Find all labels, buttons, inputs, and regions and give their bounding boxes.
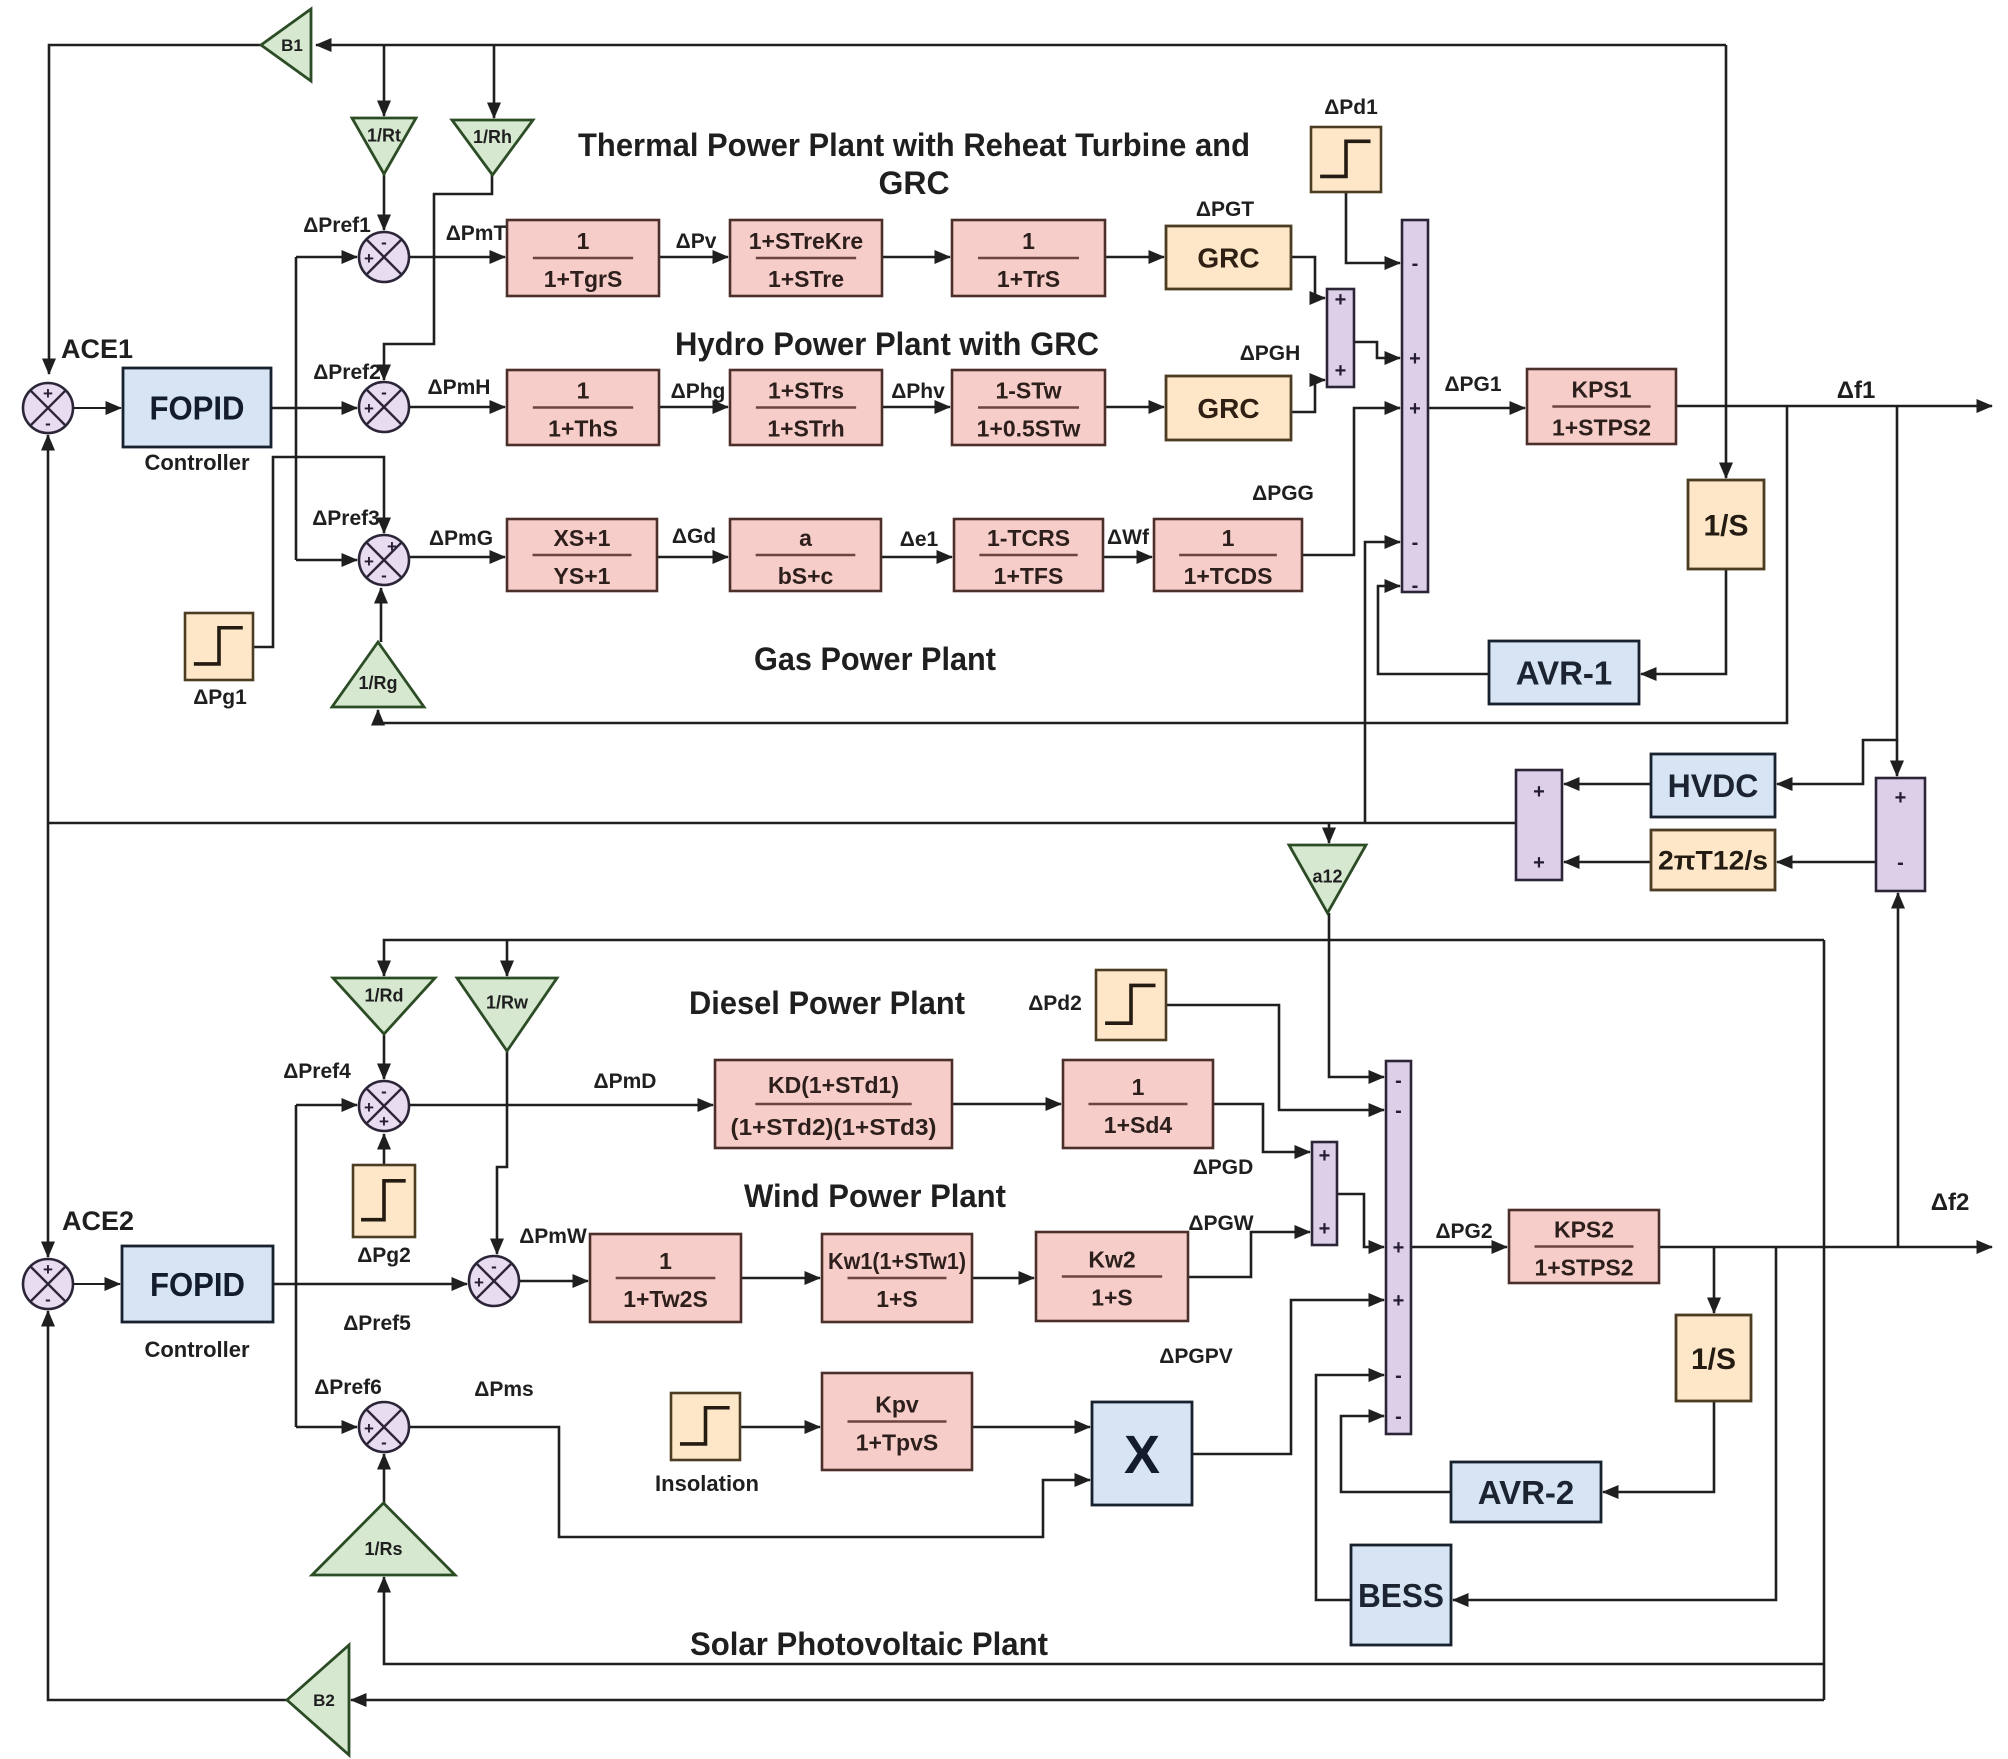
svg-text:+: + [474,1273,484,1292]
svg-text:ΔPref6: ΔPref6 [314,1376,382,1399]
svg-text:ΔPref5: ΔPref5 [343,1312,411,1335]
svg-text:Insolation: Insolation [655,1471,759,1496]
svg-text:Kw1(1+STw1): Kw1(1+STw1) [828,1248,966,1274]
svg-text:-: - [491,1257,497,1276]
svg-text:+: + [1409,348,1421,370]
svg-text:1+TpvS: 1+TpvS [856,1430,938,1456]
svg-text:ΔPhg: ΔPhg [671,380,726,403]
svg-text:-: - [381,566,387,585]
svg-text:ΔPref3: ΔPref3 [312,507,380,530]
svg-text:1+Sd4: 1+Sd4 [1104,1112,1173,1138]
svg-text:ΔPGH: ΔPGH [1240,342,1301,365]
svg-text:1-STw: 1-STw [995,378,1061,404]
svg-text:1+TrS: 1+TrS [997,266,1060,292]
svg-text:bS+c: bS+c [778,563,834,589]
svg-text:+: + [1533,781,1545,803]
svg-text:Hydro Power Plant with GRC: Hydro Power Plant with GRC [675,326,1099,362]
svg-text:-: - [1897,852,1904,874]
svg-text:Diesel Power Plant: Diesel Power Plant [689,985,965,1021]
svg-text:ΔPGG: ΔPGG [1252,482,1314,505]
svg-text:(1+STd2)(1+STd3): (1+STd2)(1+STd3) [731,1114,937,1140]
svg-text:ΔWf: ΔWf [1107,526,1150,549]
svg-text:-: - [1395,1406,1402,1428]
svg-text:ΔPd1: ΔPd1 [1324,96,1378,119]
svg-text:-: - [1395,1070,1402,1092]
svg-text:YS+1: YS+1 [554,563,611,589]
svg-text:Thermal Power Plant with Rehea: Thermal Power Plant with Reheat Turbine … [578,127,1250,163]
svg-text:1+ThS: 1+ThS [548,416,618,442]
svg-text:ΔPhv: ΔPhv [891,380,945,403]
svg-text:1: 1 [659,1248,672,1274]
svg-text:ΔPGW: ΔPGW [1188,1212,1253,1235]
svg-text:2πT12/s: 2πT12/s [1658,846,1768,876]
svg-text:ΔPref4: ΔPref4 [283,1060,351,1083]
svg-text:1+STPS2: 1+STPS2 [1534,1255,1633,1281]
svg-text:1: 1 [1222,525,1235,551]
svg-text:Controller: Controller [144,450,250,475]
svg-text:ΔPref1: ΔPref1 [303,214,371,237]
svg-text:XS+1: XS+1 [554,525,611,551]
svg-text:+: + [364,1419,374,1438]
svg-text:+: + [1319,1218,1331,1240]
svg-text:+: + [364,249,374,268]
svg-text:+: + [364,399,374,418]
svg-text:GRC: GRC [1197,243,1259,274]
svg-text:1: 1 [1022,228,1035,254]
svg-text:FOPID: FOPID [150,1266,245,1303]
svg-text:BESS: BESS [1358,1577,1444,1614]
svg-text:-: - [1412,253,1419,275]
svg-text:GRC: GRC [878,165,949,201]
svg-text:Wind Power Plant: Wind Power Plant [744,1178,1006,1214]
svg-text:KD(1+STd1): KD(1+STd1) [768,1072,899,1098]
svg-text:+: + [1335,289,1347,311]
svg-text:-: - [1412,575,1419,597]
svg-text:1+TgrS: 1+TgrS [544,266,623,292]
svg-text:ΔPref2: ΔPref2 [313,361,381,384]
svg-text:1+STrs: 1+STrs [768,378,844,404]
svg-text:-: - [381,1433,387,1452]
svg-text:-: - [381,233,387,252]
svg-text:Δf1: Δf1 [1837,377,1876,404]
svg-text:1+S: 1+S [876,1286,918,1312]
svg-text:AVR-1: AVR-1 [1516,654,1613,691]
svg-text:-: - [1395,1100,1402,1122]
svg-text:1/Rg: 1/Rg [358,673,397,693]
svg-text:ΔPmT: ΔPmT [446,222,507,245]
svg-text:ΔPG2: ΔPG2 [1435,1220,1492,1243]
svg-text:ΔPGPV: ΔPGPV [1159,1345,1232,1368]
svg-text:KPS2: KPS2 [1554,1217,1614,1243]
svg-text:+: + [364,552,374,571]
svg-text:ΔPms: ΔPms [474,1378,533,1401]
svg-text:1: 1 [577,378,590,404]
svg-text:1/S: 1/S [1703,509,1748,542]
svg-text:Controller: Controller [144,1337,250,1362]
svg-text:+: + [43,1260,53,1279]
svg-text:-: - [45,414,51,433]
svg-text:a: a [799,525,812,551]
svg-text:+: + [364,1098,374,1117]
svg-text:KPS1: KPS1 [1571,377,1631,403]
svg-text:Kpv: Kpv [875,1392,919,1418]
svg-text:ΔPmW: ΔPmW [519,1225,587,1248]
svg-text:ΔPmD: ΔPmD [594,1070,657,1093]
svg-text:1: 1 [1132,1074,1145,1100]
svg-text:ΔPG1: ΔPG1 [1444,373,1501,396]
svg-text:B1: B1 [281,36,303,55]
svg-text:1+Tw2S: 1+Tw2S [623,1286,708,1312]
svg-text:1+STre: 1+STre [768,266,844,292]
svg-text:Kw2: Kw2 [1088,1247,1135,1273]
svg-text:1-TCRS: 1-TCRS [987,525,1070,551]
svg-text:+: + [1335,360,1347,382]
svg-text:-: - [381,1082,387,1101]
svg-text:Solar Photovoltaic Plant: Solar Photovoltaic Plant [690,1626,1048,1662]
svg-text:+: + [1533,852,1545,874]
svg-text:Δe1: Δe1 [900,528,939,551]
svg-text:ACE1: ACE1 [61,334,133,364]
svg-text:X: X [1124,1425,1160,1485]
svg-text:+: + [43,384,53,403]
svg-text:1/Rt: 1/Rt [367,126,401,146]
svg-text:GRC: GRC [1197,393,1259,424]
svg-text:1/S: 1/S [1691,1343,1736,1376]
svg-text:-: - [1395,1365,1402,1387]
svg-text:1+0.5STw: 1+0.5STw [977,416,1081,442]
svg-text:1/Rd: 1/Rd [364,986,403,1006]
svg-text:1/Rs: 1/Rs [364,1539,402,1559]
svg-text:ΔPGD: ΔPGD [1193,1156,1254,1179]
svg-text:1: 1 [577,228,590,254]
svg-text:-: - [45,1290,51,1309]
svg-text:ΔPg2: ΔPg2 [357,1244,411,1267]
svg-text:ΔPv: ΔPv [676,230,717,253]
svg-text:-: - [381,383,387,402]
svg-text:1/Rw: 1/Rw [486,993,529,1013]
svg-text:1+STrh: 1+STrh [767,416,844,442]
svg-text:HVDC: HVDC [1668,768,1759,804]
svg-text:Gas Power Plant: Gas Power Plant [754,641,996,677]
svg-text:1/Rh: 1/Rh [473,127,512,147]
svg-text:1+STPS2: 1+STPS2 [1552,415,1651,441]
svg-text:-: - [1412,532,1419,554]
svg-text:FOPID: FOPID [150,389,245,426]
svg-text:AVR-2: AVR-2 [1478,1474,1575,1511]
svg-text:+: + [1393,1237,1405,1259]
svg-text:+: + [1895,787,1907,809]
svg-text:ΔGd: ΔGd [672,525,716,548]
svg-text:+: + [387,537,397,556]
svg-text:+: + [379,1112,389,1131]
svg-text:+: + [1409,398,1421,420]
svg-text:1+S: 1+S [1091,1285,1133,1311]
svg-text:ΔPg1: ΔPg1 [193,686,247,709]
svg-text:ACE2: ACE2 [62,1206,134,1236]
svg-text:ΔPGT: ΔPGT [1196,198,1254,221]
svg-text:Δf2: Δf2 [1931,1189,1970,1216]
svg-text:+: + [1393,1290,1405,1312]
svg-text:ΔPmG: ΔPmG [429,527,493,550]
svg-text:1+STreKre: 1+STreKre [749,228,863,254]
svg-text:+: + [1319,1145,1331,1167]
svg-text:a12: a12 [1312,866,1342,886]
svg-text:B2: B2 [313,1691,335,1710]
svg-text:1+TFS: 1+TFS [994,563,1064,589]
svg-text:ΔPd2: ΔPd2 [1028,992,1082,1015]
svg-text:ΔPmH: ΔPmH [428,376,491,399]
svg-text:1+TCDS: 1+TCDS [1184,563,1273,589]
